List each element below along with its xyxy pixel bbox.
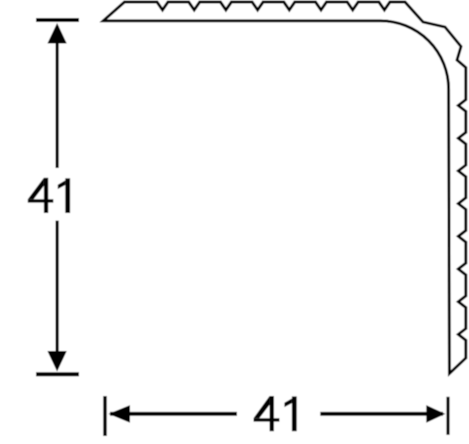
horizontal dimension text 41 (254, 396, 297, 431)
vertical dimension: top extension tick (36, 18, 79, 22)
vertical dimension text 41 (28, 178, 70, 213)
vertical dimension arrowhead down (47, 351, 66, 372)
horizontal dimension: left extension tick (103, 396, 107, 436)
horizontal dimension arrowhead left (109, 405, 131, 423)
horizontal dimension arrowhead right (426, 405, 445, 423)
vertical dimension line lower segment (55, 221, 58, 368)
horizontal dimension line right segment (320, 412, 443, 416)
vertical dimension line upper segment (55, 26, 58, 168)
profile outline (L-shaped serrated stair nosing cross-section) (103, 2, 466, 374)
vertical dimension arrowhead up (47, 23, 66, 44)
horizontal dimension: right extension tick (446, 397, 449, 435)
horizontal dimension line left segment (110, 412, 237, 416)
vertical dimension: bottom extension tick (36, 372, 79, 376)
